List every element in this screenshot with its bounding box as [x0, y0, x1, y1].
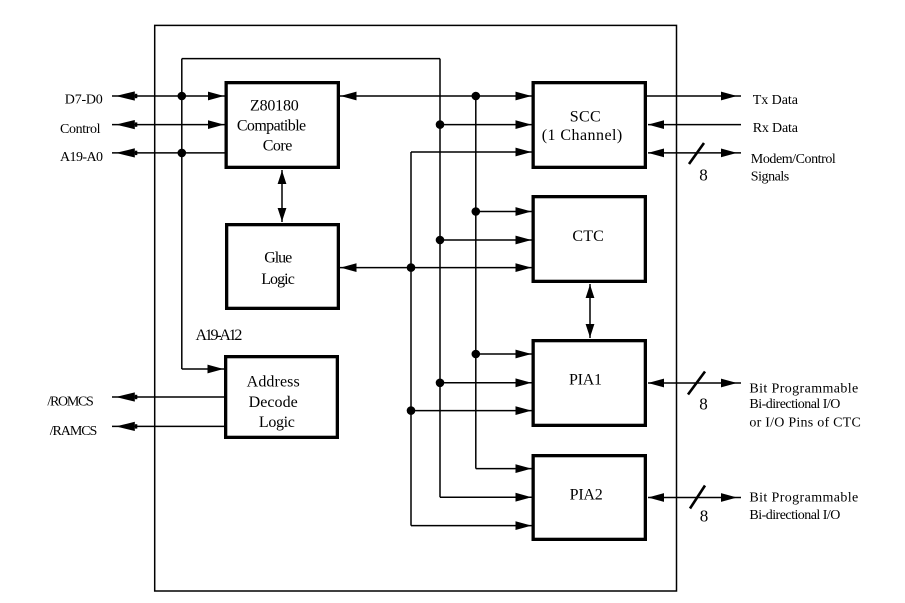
- wire Control external into core: [112, 120, 225, 129]
- svg-text:Logic: Logic: [259, 414, 295, 431]
- block U3 Address Decode Logic: [226, 357, 338, 438]
- wire bus V3 to PIA1 bottom input: [407, 406, 532, 415]
- block U5 CTC: [533, 197, 645, 282]
- wire bus V5 to CTC top input: [472, 207, 532, 216]
- wire A19-A0 external into core, junction at node V1: [112, 148, 226, 157]
- wire Rx Data input to SCC: [648, 120, 741, 129]
- wire /RAMCS from Address Decode Logic: [112, 422, 226, 431]
- wire vertical bus V5 (x=475.8): [475, 96, 477, 469]
- svg-text:8: 8: [699, 395, 708, 414]
- svg-text:CTC: CTC: [572, 228, 603, 245]
- svg-text:PIA1: PIA1: [569, 371, 602, 388]
- block U6 PIA1: [533, 341, 645, 426]
- label PIA2 port: Bit Programmable Bi-directional I/O: [749, 490, 858, 523]
- bus slash 8 on PIA1 port wire: [688, 372, 708, 414]
- svg-text:/ROMCS: /ROMCS: [47, 394, 93, 409]
- bus slash 8 on Modem/Control wire: [689, 143, 708, 185]
- wire bidirectional CTC to PIA1: [586, 284, 595, 338]
- wire bus V5 to PIA1 top input: [472, 350, 532, 359]
- wire Tx Data output from SCC: [646, 92, 742, 101]
- label Modem/Control Signals: [751, 152, 836, 184]
- svg-text:or I/O Pins of CTC: or I/O Pins of CTC: [749, 415, 860, 430]
- wire bus V3 to SCC bottom input: [411, 148, 532, 157]
- wire into Address Decode Logic from bus V1: [182, 365, 224, 374]
- svg-text:Z80180: Z80180: [250, 97, 299, 114]
- wire vertical bus V1 (x=182) down to Address Decode Logic: [181, 59, 183, 369]
- svg-text:Logic: Logic: [261, 271, 295, 288]
- svg-text:Core: Core: [263, 137, 293, 154]
- svg-text:(1 Channel): (1 Channel): [542, 127, 623, 144]
- svg-text:Compatible: Compatible: [237, 117, 306, 134]
- wire vertical bus V3 (x=411): [410, 152, 412, 526]
- wire PIA1 bidirectional I/O port: [648, 379, 741, 388]
- bus slash 8 on PIA2 port wire: [690, 486, 708, 526]
- svg-text:Rx Data: Rx Data: [753, 121, 799, 136]
- svg-text:Address: Address: [247, 373, 300, 390]
- svg-text:SCC: SCC: [570, 108, 601, 125]
- svg-text:A19-A12: A19-A12: [196, 327, 243, 344]
- svg-text:/RAMCS: /RAMCS: [50, 424, 98, 439]
- svg-text:A19-A0: A19-A0: [60, 150, 103, 165]
- wire D7-D0 external into core, junction at node V1: [112, 91, 225, 100]
- label PIA1 port: Bit Programmable Bi-directional I/O or I/O Pins of CTC: [749, 381, 860, 430]
- wire bus V3 elbow to PIA2 bottom input: [411, 521, 532, 530]
- wire /ROMCS from Address Decode Logic: [112, 392, 226, 401]
- svg-text:Bi-directional I/O: Bi-directional I/O: [749, 508, 840, 523]
- svg-text:Control: Control: [60, 122, 101, 137]
- wire bus V4 to SCC middle input: [436, 120, 532, 129]
- svg-text:Signals: Signals: [751, 169, 789, 184]
- wire PIA2 bidirectional I/O port: [648, 493, 741, 502]
- svg-text:Glue: Glue: [264, 250, 292, 267]
- svg-text:Bit Programmable: Bit Programmable: [749, 381, 858, 396]
- block U1 Z80180 Compatible Core: [226, 83, 338, 168]
- svg-text:8: 8: [700, 507, 709, 526]
- block U4 SCC (1 Channel): [533, 83, 645, 168]
- svg-text:Tx Data: Tx Data: [753, 93, 799, 108]
- wire Z80180 Core to SCC (data), junction on bus V5: [340, 92, 532, 101]
- chip outer boundary frame: [155, 25, 677, 591]
- wire bus V4 to PIA1 middle input: [436, 378, 532, 387]
- svg-text:Bit Programmable: Bit Programmable: [749, 490, 858, 505]
- wire bus V4 elbow to PIA2 middle input: [440, 493, 532, 502]
- wire Glue Logic to CTC, junction on bus V3: [340, 263, 532, 272]
- svg-text:Bi-directional I/O: Bi-directional I/O: [749, 397, 840, 412]
- block U2 Glue Logic: [227, 225, 339, 309]
- svg-text:8: 8: [699, 166, 708, 185]
- wire Modem/Control Signals bidirectional at SCC: [648, 149, 741, 158]
- wire bus V5 elbow to PIA2 top input: [476, 464, 532, 473]
- wire vertical bus V4 (x=440): [439, 59, 441, 498]
- wire top data bus from node V1 to node V4: [182, 58, 440, 60]
- svg-text:D7-D0: D7-D0: [65, 93, 103, 108]
- wire bus V4 to CTC middle input: [436, 236, 532, 245]
- svg-text:Modem/Control: Modem/Control: [751, 152, 836, 167]
- svg-text:PIA2: PIA2: [570, 486, 603, 503]
- svg-text:Decode: Decode: [249, 394, 298, 411]
- wire bidirectional Z80180 Core to Glue Logic: [278, 170, 287, 222]
- block U7 PIA2: [533, 456, 645, 540]
